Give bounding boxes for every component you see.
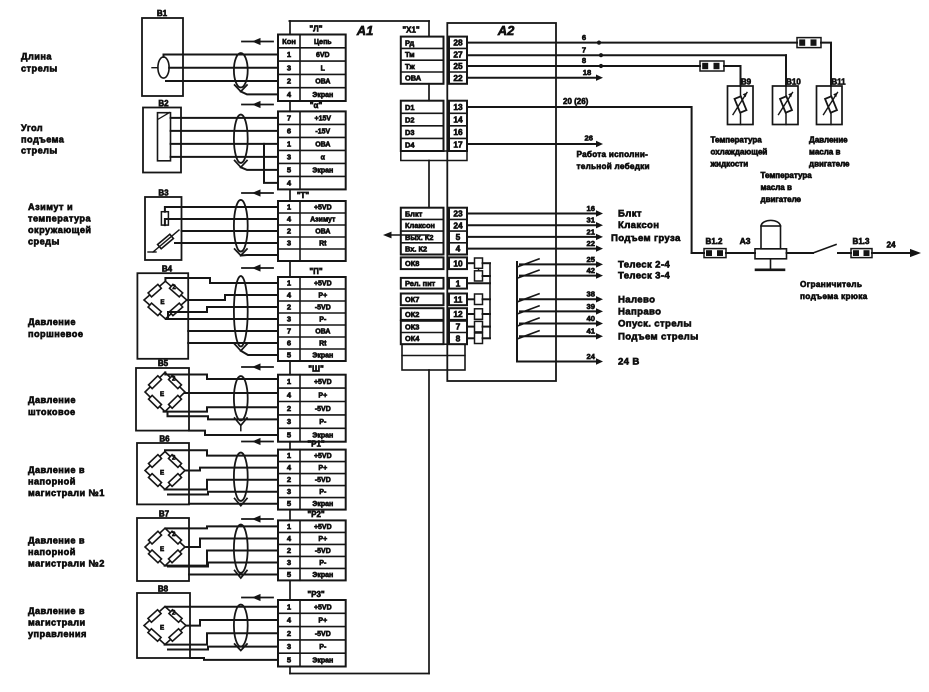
block A1 left edge stubs xyxy=(289,21,291,674)
wire B4 P+ xyxy=(187,295,278,300)
svg-text:7: 7 xyxy=(287,327,291,336)
svg-text:7: 7 xyxy=(287,114,291,123)
wire net 22 output xyxy=(467,248,596,250)
svg-text:А2: А2 xyxy=(497,23,515,38)
svg-text:D2: D2 xyxy=(405,115,414,124)
wire B5 P- xyxy=(168,413,279,420)
cable direction marker B5 xyxy=(242,366,273,368)
svg-text:20 (26): 20 (26) xyxy=(563,97,589,106)
svg-text:"Р3": "Р3" xyxy=(307,590,325,599)
block A1 bottom edge xyxy=(290,673,429,675)
resistor R1 on pin 10 xyxy=(475,258,483,268)
switch contact for net 40 xyxy=(518,318,540,326)
svg-text:-15V: -15V xyxy=(315,129,330,136)
switch contact for net 25 xyxy=(518,259,540,267)
wire pin row y326.6 to resistor xyxy=(467,326,475,328)
sounder A3 xyxy=(755,220,787,258)
svg-text:4: 4 xyxy=(456,244,461,254)
svg-text:Подъем груза: Подъем груза xyxy=(611,233,681,244)
svg-text:6: 6 xyxy=(287,127,291,136)
connector X1 empty cell below D4 xyxy=(401,151,467,161)
svg-text:α: α xyxy=(321,155,326,162)
cable shield B5 xyxy=(234,376,248,420)
svg-text:5: 5 xyxy=(287,431,292,440)
wire net 31 output xyxy=(467,224,596,226)
svg-text:Налево: Налево xyxy=(618,294,655,305)
svg-text:температура: температура xyxy=(28,214,91,224)
svg-text:5: 5 xyxy=(287,166,292,175)
svg-text:"Р1": "Р1" xyxy=(307,439,325,448)
svg-text:2: 2 xyxy=(287,404,291,413)
svg-text:Р+: Р+ xyxy=(318,392,327,399)
svg-text:18: 18 xyxy=(583,68,591,77)
svg-text:31: 31 xyxy=(587,216,596,225)
svg-text:3: 3 xyxy=(287,239,291,248)
svg-text:"П": "П" xyxy=(309,267,323,276)
svg-text:В3: В3 xyxy=(158,189,169,198)
svg-text:1: 1 xyxy=(287,602,292,611)
svg-text:5: 5 xyxy=(287,655,292,664)
svg-text:23: 23 xyxy=(453,209,463,219)
label "Давление поршневое" xyxy=(28,317,83,339)
cable direction marker B8 xyxy=(242,597,273,599)
wire B4 -5VD xyxy=(168,307,278,318)
resistor on pin row y299.3 xyxy=(475,294,483,305)
svg-text:Работа исполни-: Работа исполни- xyxy=(577,149,649,159)
svg-text:Е: Е xyxy=(160,625,164,632)
svg-text:+5VD: +5VD xyxy=(314,281,332,288)
sensor В9 box xyxy=(728,86,754,125)
svg-text:А3: А3 xyxy=(740,236,751,246)
connector table "Р3" of A1 (pins P3) xyxy=(278,600,346,667)
svg-text:3: 3 xyxy=(287,63,291,72)
svg-text:охлаждающей: охлаждающей xyxy=(711,148,768,157)
node on net 8 xyxy=(599,64,603,68)
wire B3 azimuth xyxy=(165,219,278,225)
svg-text:+5VD: +5VD xyxy=(314,604,332,611)
svg-text:8: 8 xyxy=(456,333,461,343)
svg-text:D1: D1 xyxy=(405,103,414,112)
svg-text:Давление: Давление xyxy=(28,317,76,327)
svg-text:ОК3: ОК3 xyxy=(405,322,419,331)
svg-text:Давление: Давление xyxy=(28,395,76,405)
svg-text:41: 41 xyxy=(587,327,596,336)
wire pin row y299.3 to resistor xyxy=(467,298,475,300)
wire B2 jog to pin4 xyxy=(264,144,278,183)
svg-text:5: 5 xyxy=(287,570,292,579)
connector X1 name cell OK2 xyxy=(401,308,444,320)
svg-text:Угол: Угол xyxy=(21,123,43,133)
svg-text:6: 6 xyxy=(287,339,291,348)
sensor B6 (pressure main 1) box xyxy=(137,443,189,504)
svg-text:В7: В7 xyxy=(159,510,170,519)
svg-text:"Т": "Т" xyxy=(297,191,310,200)
connector X1 pin boxes 13 14 16 17 xyxy=(449,101,467,151)
wire B3 OVA xyxy=(182,230,279,232)
wire net 42 xyxy=(520,275,596,277)
wire net 38 xyxy=(520,298,596,300)
svg-text:21: 21 xyxy=(587,227,596,236)
wire resistor y299.3 to rail xyxy=(483,298,491,300)
wire pin 1 Rel.pit to rail xyxy=(467,282,490,284)
wire net 7 from pin 27 to B10 xyxy=(467,54,786,56)
svg-text:4: 4 xyxy=(287,463,292,472)
svg-text:В1.3: В1.3 xyxy=(853,237,870,246)
svg-text:2: 2 xyxy=(287,546,291,555)
wire pin 10 to resistors xyxy=(467,262,475,264)
svg-text:Давление в: Давление в xyxy=(28,536,85,546)
label "Температура охлаждающей жидкости" xyxy=(710,136,768,169)
svg-text:"α": "α" xyxy=(310,101,323,110)
wire B5 -5VD xyxy=(164,407,278,411)
svg-text:2: 2 xyxy=(172,531,176,538)
switch common bus xyxy=(517,262,519,362)
wire pin row y338.3 to resistor xyxy=(467,337,475,339)
label "Угол подъема стрелы" xyxy=(21,123,65,156)
wire net 26 from pin 17 xyxy=(467,143,596,145)
svg-text:Блкт: Блкт xyxy=(405,209,423,218)
svg-text:Е: Е xyxy=(160,470,164,477)
label "Длина стрелы" xyxy=(21,52,58,74)
common rail of resistor cluster xyxy=(489,263,491,338)
wire R1 to rail xyxy=(483,262,491,264)
limit switch B1.3 blade (hook lift limiter) xyxy=(813,245,836,254)
node on net 6 xyxy=(597,41,601,45)
connector X1 pin boxes 7 8 xyxy=(449,321,467,344)
svg-text:В10: В10 xyxy=(786,77,801,86)
connector X1 pin boxes 23 24 5 4 xyxy=(449,208,467,255)
svg-text:4: 4 xyxy=(287,90,292,99)
svg-text:Р+: Р+ xyxy=(318,536,327,543)
wire net 40 xyxy=(520,323,596,325)
cable direction marker B1 xyxy=(242,41,273,43)
wire B8 shield row xyxy=(190,658,278,660)
svg-text:Направо: Направо xyxy=(618,307,661,318)
connector B1.3 xyxy=(851,249,872,258)
wire B6 -5VD xyxy=(165,480,278,490)
wire B5 shield row xyxy=(189,431,278,435)
svg-text:В2: В2 xyxy=(158,99,169,108)
wire net 7 down to B10 xyxy=(785,55,787,86)
svg-text:10: 10 xyxy=(453,258,463,268)
connector table "Ш" of A1 (pins Sh) xyxy=(278,375,346,442)
stub between connector X1 groups 1-2 xyxy=(428,84,430,101)
wire B4 shield xyxy=(241,351,278,355)
resistor element in B3 xyxy=(161,212,168,225)
wire B6 shield row xyxy=(189,503,278,505)
wire B6 P- xyxy=(168,492,278,495)
svg-text:Р-: Р- xyxy=(319,317,327,324)
svg-text:4: 4 xyxy=(287,390,292,399)
connector table "Л" of A1 (pins L) xyxy=(278,35,346,102)
svg-text:Азимут и: Азимут и xyxy=(28,202,73,212)
svg-text:24: 24 xyxy=(453,220,463,230)
cable shield B3 xyxy=(234,200,248,252)
wire B8 P+ xyxy=(187,620,279,626)
resistor on pin row y338.3 xyxy=(475,333,483,344)
connector plug on net 6 xyxy=(797,38,821,48)
stub between connector X1 groups 2-3 xyxy=(428,161,430,208)
svg-text:28: 28 xyxy=(453,38,463,48)
wire B4 Rt xyxy=(188,342,278,344)
svg-text:Р+: Р+ xyxy=(318,618,327,625)
svg-text:2: 2 xyxy=(287,303,291,312)
wire B5 +5VD xyxy=(165,372,278,379)
svg-text:24: 24 xyxy=(886,240,896,249)
svg-text:ОВА: ОВА xyxy=(315,79,330,86)
svg-text:Р+: Р+ xyxy=(318,465,327,472)
svg-text:1: 1 xyxy=(287,203,292,212)
svg-text:27: 27 xyxy=(453,49,463,59)
svg-text:1: 1 xyxy=(287,279,292,288)
wire B4 OVA xyxy=(188,330,278,332)
svg-text:Р-: Р- xyxy=(319,644,327,651)
label "Давление в напорной магистрали №1" xyxy=(28,465,105,498)
label "Ограничитель подъема крюка" xyxy=(800,279,868,301)
svg-text:-5VD: -5VD xyxy=(315,548,331,555)
connector X1 name cells Blkt Klakson VyhK2 VhK2 xyxy=(401,208,444,255)
svg-text:4: 4 xyxy=(287,291,292,300)
connector X1 name cell Rel.pit xyxy=(401,278,444,289)
connector table "Р2" of A1 (pins P2) xyxy=(278,520,346,580)
svg-text:Р+: Р+ xyxy=(318,293,327,300)
wire resistor y338.3 to rail xyxy=(483,337,491,339)
wire net 24 output to the right xyxy=(872,252,912,254)
wire B1 shield to pin4 xyxy=(241,92,278,95)
svg-text:"Р2": "Р2" xyxy=(307,510,325,519)
svg-text:Рел. пит: Рел. пит xyxy=(405,279,436,288)
wire B3 Rt xyxy=(175,242,278,244)
svg-text:тельной лебедки: тельной лебедки xyxy=(577,161,650,171)
switch contact for net 42 xyxy=(518,270,540,278)
svg-text:Кон: Кон xyxy=(282,37,296,46)
svg-text:В5: В5 xyxy=(158,359,169,368)
svg-text:4: 4 xyxy=(287,534,292,543)
wire B1.2 to A3 xyxy=(726,252,755,254)
svg-text:5: 5 xyxy=(287,351,292,360)
sensing element of В10 xyxy=(779,86,793,125)
cable direction marker B6 xyxy=(242,441,273,443)
svg-text:D3: D3 xyxy=(405,128,414,137)
cable direction marker B4 xyxy=(242,267,273,269)
strain gauge bridge of B8 xyxy=(144,607,186,645)
strain gauge bridge of B7 xyxy=(145,528,185,566)
svg-text:2: 2 xyxy=(287,629,291,638)
svg-text:Давление в: Давление в xyxy=(28,606,85,616)
svg-text:L: L xyxy=(321,65,326,72)
wire net 39 xyxy=(520,310,596,312)
svg-text:В4: В4 xyxy=(162,265,173,274)
svg-text:жидкости: жидкости xyxy=(710,159,749,168)
svg-text:3: 3 xyxy=(287,642,291,651)
wire B8 P- xyxy=(168,647,278,650)
connector X1 name cell OK7 xyxy=(401,294,444,306)
sensor В10 box xyxy=(773,86,799,125)
switch contact for net 41 xyxy=(518,331,540,339)
svg-text:"Х1": "Х1" xyxy=(402,26,420,35)
svg-text:13: 13 xyxy=(453,102,463,112)
svg-text:Тж: Тж xyxy=(405,62,416,71)
svg-text:3: 3 xyxy=(287,153,291,162)
sensor B4 (piston pressure) box xyxy=(137,273,188,359)
svg-text:масла в: масла в xyxy=(761,183,792,192)
svg-text:1: 1 xyxy=(287,377,292,386)
cable shield B1 xyxy=(234,53,248,87)
wire B6 +5VD xyxy=(165,450,278,455)
label "Азимут и температура окружающей среды" xyxy=(28,202,92,247)
svg-text:42: 42 xyxy=(587,266,595,275)
svg-text:А1: А1 xyxy=(356,23,374,38)
wire B4 +5VD xyxy=(165,278,278,283)
svg-text:1: 1 xyxy=(287,50,292,59)
svg-text:В6: В6 xyxy=(159,435,170,444)
sensor В11 box xyxy=(817,86,843,125)
svg-text:Ограничитель: Ограничитель xyxy=(800,279,862,289)
svg-text:Rt: Rt xyxy=(319,241,327,248)
connector plug on net 8 xyxy=(700,61,724,71)
svg-text:Экран: Экран xyxy=(312,657,333,664)
switch contact for net 39 xyxy=(518,306,540,314)
svg-text:Экран: Экран xyxy=(312,501,333,508)
svg-text:6VD: 6VD xyxy=(316,52,330,59)
svg-text:напорной: напорной xyxy=(28,477,76,487)
svg-text:"Ш": "Ш" xyxy=(308,365,324,374)
connector table "П" of A1 (pins P) xyxy=(278,277,346,361)
wire net 8 to B9 xyxy=(724,66,741,86)
potentiometer inside B1 xyxy=(158,57,169,78)
connector X1 analog-name cells Pd Tm Tzh OVA xyxy=(401,37,444,84)
wire B2 +15V xyxy=(171,117,279,119)
svg-text:Вых. К2: Вых. К2 xyxy=(405,233,434,242)
svg-text:Е: Е xyxy=(160,391,164,398)
svg-text:Экран: Экран xyxy=(312,353,333,360)
svg-text:Р-: Р- xyxy=(319,560,327,567)
svg-text:стрелы: стрелы xyxy=(21,64,58,74)
svg-text:Экран: Экран xyxy=(312,572,333,579)
svg-text:40: 40 xyxy=(587,314,595,323)
node on net 7 xyxy=(599,53,603,57)
svg-text:магистрали: магистрали xyxy=(28,618,86,628)
wire R2 to rail xyxy=(483,275,491,277)
label "Давление масла в двигателе" xyxy=(809,136,850,169)
block A1 right edge top stub xyxy=(428,21,430,37)
wire net 21 output xyxy=(467,236,596,238)
sensor B1 (boom length) box xyxy=(142,18,183,96)
strain gauge bridge of B4 xyxy=(144,281,187,319)
svg-text:5: 5 xyxy=(287,499,292,508)
svg-text:11: 11 xyxy=(454,294,463,304)
block A1 outline top edge xyxy=(289,20,429,22)
svg-text:штоковое: штоковое xyxy=(28,407,76,417)
cable direction marker B2 xyxy=(242,104,273,106)
svg-text:2: 2 xyxy=(172,375,176,382)
svg-text:1: 1 xyxy=(456,278,461,288)
wire B2 OVA xyxy=(171,143,279,145)
svg-text:12: 12 xyxy=(453,309,463,319)
svg-text:22: 22 xyxy=(453,73,463,83)
wire B2 shield to pin5 xyxy=(241,167,278,170)
svg-text:ОК2: ОК2 xyxy=(405,310,419,319)
wire net 20 to connector B1.2 xyxy=(692,252,704,254)
svg-text:Блкт: Блкт xyxy=(618,208,642,219)
wire net 24 (24V supply) xyxy=(517,361,596,363)
svg-text:Телеск 2-4: Телеск 2-4 xyxy=(618,260,670,271)
svg-text:25: 25 xyxy=(453,61,463,71)
wire B8 -5VD xyxy=(165,633,278,644)
svg-text:D4: D4 xyxy=(405,141,415,150)
svg-text:Клаксон: Клаксон xyxy=(405,221,435,230)
svg-text:Подъем стрелы: Подъем стрелы xyxy=(618,331,699,342)
svg-text:2: 2 xyxy=(172,610,176,617)
label "Давление штоковое" xyxy=(28,395,76,417)
svg-text:+5VD: +5VD xyxy=(314,205,332,212)
svg-text:Цепь: Цепь xyxy=(314,39,332,46)
cable direction marker B7 xyxy=(242,518,273,520)
wire B2 alpha xyxy=(171,156,279,158)
svg-text:поршневое: поршневое xyxy=(28,329,83,339)
label "Давление в магистрали управления" xyxy=(28,606,87,639)
svg-text:-5VD: -5VD xyxy=(315,406,331,413)
svg-text:ОВА: ОВА xyxy=(315,329,330,336)
svg-text:Давление: Давление xyxy=(809,136,848,145)
svg-text:1: 1 xyxy=(287,522,292,531)
block A2 outline xyxy=(447,23,556,381)
cable direction marker B3 xyxy=(242,192,273,194)
wire joining R1 R2 xyxy=(478,268,480,271)
svg-text:ОВА: ОВА xyxy=(405,74,422,83)
svg-text:+5VD: +5VD xyxy=(314,379,332,386)
connector X1 pin box 1 xyxy=(449,278,467,289)
svg-text:3: 3 xyxy=(287,487,291,496)
svg-text:+5VD: +5VD xyxy=(314,453,332,460)
connector B1.2 xyxy=(704,249,726,258)
wire B3 shield xyxy=(241,254,278,257)
svg-text:"Л": "Л" xyxy=(309,24,322,33)
svg-text:17: 17 xyxy=(453,140,463,150)
cable direction marker into X1 (left arrow) xyxy=(389,234,429,236)
label "Температура масла в двигателе" xyxy=(761,171,813,204)
sensor B8 (control main pressure) box xyxy=(137,593,190,658)
svg-text:окружающей: окружающей xyxy=(28,225,92,235)
svg-text:14: 14 xyxy=(453,115,463,125)
svg-text:22: 22 xyxy=(587,239,595,248)
svg-text:Опуск. стрелы: Опуск. стрелы xyxy=(618,319,692,330)
svg-text:двигателе: двигателе xyxy=(809,159,850,168)
cable shield B4 xyxy=(234,276,248,346)
svg-text:2: 2 xyxy=(172,455,176,462)
wire B1 pin3 L xyxy=(169,67,278,69)
svg-text:1: 1 xyxy=(287,451,292,460)
svg-text:39: 39 xyxy=(587,302,595,311)
svg-text:подъема: подъема xyxy=(21,135,65,145)
wire B7 P- xyxy=(168,563,278,567)
svg-text:магистрали №1: магистрали №1 xyxy=(28,488,105,498)
wire B7 +5VD xyxy=(165,526,278,528)
svg-text:В8: В8 xyxy=(158,585,169,594)
svg-text:подъема крюка: подъема крюка xyxy=(800,291,868,301)
svg-text:В1.2: В1.2 xyxy=(706,237,723,246)
wire B7 P+ xyxy=(186,539,278,548)
connector X1 pin box 11 xyxy=(449,294,467,306)
ground of A3 xyxy=(756,259,784,270)
svg-text:В11: В11 xyxy=(831,77,846,86)
svg-text:26: 26 xyxy=(585,134,593,143)
svg-text:-5VD: -5VD xyxy=(315,477,331,484)
svg-text:ОК4: ОК4 xyxy=(405,334,420,343)
svg-text:ОВА: ОВА xyxy=(315,229,330,236)
svg-text:напорной: напорной xyxy=(28,547,76,557)
cable shield B6 xyxy=(234,453,248,501)
